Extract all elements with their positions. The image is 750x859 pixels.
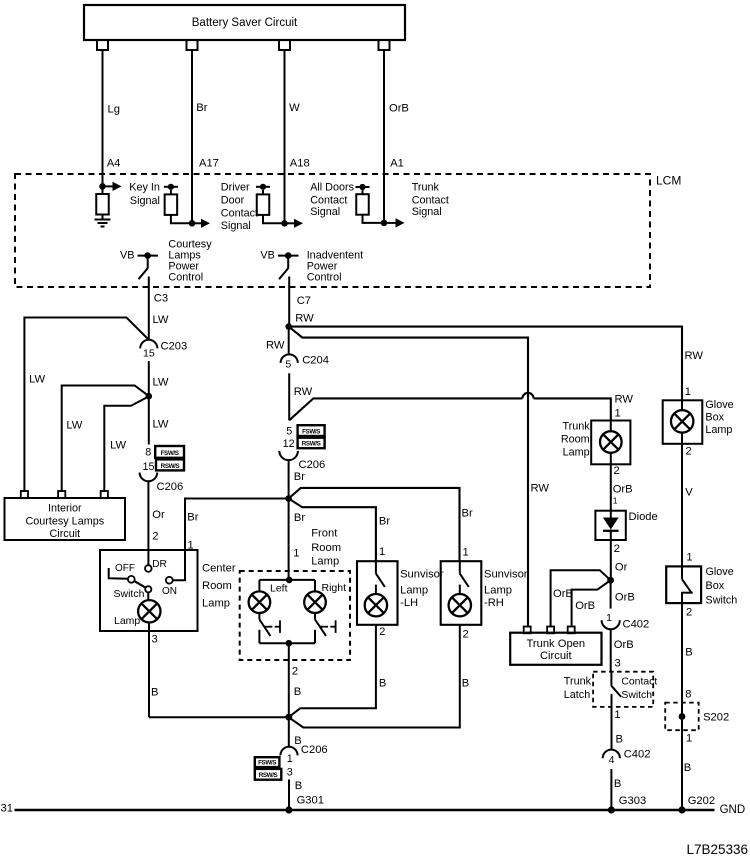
svg-text:W: W <box>289 102 300 114</box>
svg-text:1: 1 <box>287 753 293 765</box>
left lamp <box>258 580 260 592</box>
svg-text:Courtesy Lamps: Courtesy Lamps <box>25 515 104 527</box>
battery box pin 1 <box>97 40 108 50</box>
svg-text:Center: Center <box>202 563 236 575</box>
wire OrB pin3 to contact switch <box>610 629 612 672</box>
svg-text:Left: Left <box>270 582 288 594</box>
svg-text:C203: C203 <box>161 340 188 352</box>
svg-text:Lamp: Lamp <box>484 585 512 597</box>
svg-text:B: B <box>294 686 301 698</box>
svg-text:RW: RW <box>531 483 550 495</box>
wire RW to glove box lamp <box>289 327 682 401</box>
svg-text:Interior: Interior <box>48 503 82 515</box>
contact switch blade <box>610 672 612 686</box>
svg-text:VB: VB <box>120 249 134 261</box>
wire B to C206 <box>288 717 290 747</box>
svg-text:C7: C7 <box>297 295 311 307</box>
svg-text:C402: C402 <box>623 618 650 630</box>
svg-text:DR: DR <box>152 559 166 570</box>
svg-text:LW: LW <box>153 314 169 326</box>
wire 2 B sunvisor RH to ground junction <box>289 625 460 728</box>
wire LW to C206 <box>148 396 150 444</box>
wire 1 B to C402 bottom <box>611 694 613 750</box>
wire RW to trunk room lamp with hop <box>289 398 522 420</box>
terminal OFF <box>109 568 128 579</box>
svg-text:Lamp: Lamp <box>114 615 140 627</box>
wire RW C7 junction to C204 <box>288 327 290 355</box>
node G303 <box>608 806 615 813</box>
resistor below A4 <box>102 186 104 194</box>
terminal ON <box>166 577 173 584</box>
svg-text:Latch: Latch <box>564 689 590 701</box>
connector C206 bottom <box>280 747 297 756</box>
svg-text:Signal: Signal <box>221 220 251 232</box>
svg-text:ON: ON <box>162 586 177 597</box>
svg-text:Front: Front <box>311 528 338 540</box>
svg-text:Trunk: Trunk <box>564 675 592 687</box>
svg-text:2: 2 <box>686 607 692 619</box>
svg-text:Circuit: Circuit <box>50 528 81 540</box>
svg-text:GND: GND <box>720 804 746 816</box>
interior courtesy lamps circuit box <box>5 498 126 540</box>
svg-text:LW: LW <box>153 377 169 389</box>
sunvisor lamp LH bulb <box>365 594 387 616</box>
svg-text:Trunk Open: Trunk Open <box>526 638 585 650</box>
wire C3 LW <box>148 277 150 341</box>
trunk room lamp bulb <box>600 431 622 453</box>
node A1 / trunk contact signal arrow <box>381 220 388 227</box>
ground <box>102 215 104 220</box>
wire Br to front room lamp <box>288 460 290 580</box>
sunvisor lamp RH bulb <box>449 594 471 616</box>
node Or junction <box>607 577 614 584</box>
trunk open circuit pin 2 <box>547 627 554 634</box>
svg-text:1: 1 <box>614 709 620 721</box>
svg-text:Diode: Diode <box>629 511 658 523</box>
trunk open circuit pin 3 <box>568 627 575 634</box>
svg-text:OrB: OrB <box>389 103 409 115</box>
svg-text:Room: Room <box>561 434 590 446</box>
svg-text:B: B <box>685 646 692 658</box>
front room lamp box <box>240 571 350 660</box>
svg-text:Door: Door <box>221 194 245 206</box>
svg-text:B: B <box>151 687 158 699</box>
svg-text:Control: Control <box>168 272 203 284</box>
right door switch <box>314 613 316 619</box>
wire 2 B front room lamp to ground junction <box>288 643 290 717</box>
svg-text:B: B <box>295 780 302 792</box>
svg-text:Lg: Lg <box>108 104 120 116</box>
svg-text:2: 2 <box>614 543 620 555</box>
svg-text:3: 3 <box>287 766 293 778</box>
right lamp <box>314 580 316 592</box>
wire Or pin2 to center room lamp <box>147 481 149 565</box>
svg-text:C206: C206 <box>299 459 326 471</box>
connector C204 <box>281 354 298 363</box>
svg-text:A18: A18 <box>290 158 310 170</box>
svg-text:FSW/S: FSW/S <box>161 450 179 457</box>
svg-text:1: 1 <box>615 408 621 420</box>
node Br branch junction <box>285 495 292 502</box>
svg-text:1: 1 <box>606 612 612 624</box>
svg-text:Box: Box <box>705 411 724 423</box>
svg-text:8: 8 <box>145 447 151 459</box>
node A4 / key in signal arrow <box>99 183 106 190</box>
svg-text:Room: Room <box>202 580 232 592</box>
node A17 / driver door contact signal arrow <box>189 220 196 227</box>
svg-text:3: 3 <box>152 634 158 646</box>
wire RW below C204 <box>288 373 290 420</box>
wire Br to sunvisor LH <box>289 499 376 562</box>
svg-text:FSW/S: FSW/S <box>302 428 320 435</box>
svg-text:Lamp: Lamp <box>563 447 590 459</box>
svg-text:RSW/S: RSW/S <box>302 441 321 448</box>
svg-text:RSW/S: RSW/S <box>259 772 278 779</box>
interior box pin 3 <box>101 491 108 498</box>
svg-text:B: B <box>684 762 691 774</box>
resistor driver door <box>164 186 178 188</box>
battery box pin 4 <box>379 40 390 50</box>
svg-text:1: 1 <box>463 547 469 559</box>
svg-text:Contact: Contact <box>621 676 657 687</box>
trunk latch contact switch box <box>593 672 653 707</box>
trunk open circuit box <box>510 633 601 665</box>
wire Lg A4 <box>102 50 104 186</box>
node C7 junction <box>285 323 292 330</box>
svg-text:Trunk: Trunk <box>562 420 590 432</box>
svg-text:Signal: Signal <box>130 195 160 207</box>
svg-text:L7B25336: L7B25336 <box>686 842 748 857</box>
wire OrB to C402 <box>610 580 612 608</box>
glove box lamp box <box>663 400 703 444</box>
svg-text:Lamp: Lamp <box>202 598 230 610</box>
svg-text:1: 1 <box>188 540 194 552</box>
svg-text:Box: Box <box>706 580 725 592</box>
svg-text:B: B <box>616 733 623 745</box>
svg-text:-RH: -RH <box>484 597 504 609</box>
wire 2 B 8 to S202 <box>681 603 683 810</box>
svg-text:C204: C204 <box>302 355 329 367</box>
svg-text:B: B <box>462 678 469 690</box>
svg-text:Trunk: Trunk <box>412 181 440 193</box>
svg-text:2: 2 <box>292 666 298 678</box>
svg-text:OrB: OrB <box>553 588 573 600</box>
wire LW from interior box pin3 <box>104 397 148 493</box>
svg-text:RW: RW <box>685 350 704 362</box>
connector C402 bottom <box>603 750 620 759</box>
battery box pin 2 <box>187 40 198 50</box>
svg-text:1: 1 <box>686 732 692 744</box>
svg-text:1: 1 <box>686 552 692 564</box>
diode D <box>595 511 625 540</box>
wire Br A17 <box>191 50 193 223</box>
resistor trunk contact <box>356 186 370 188</box>
connector C203 <box>140 340 157 349</box>
splice S202 <box>665 703 699 731</box>
svg-text:Glove: Glove <box>705 399 733 411</box>
svg-text:1: 1 <box>293 548 299 560</box>
svg-text:Driver: Driver <box>221 181 250 193</box>
svg-text:Contact: Contact <box>310 195 347 207</box>
wire 2 B sunvisor LH to ground junction <box>289 625 376 717</box>
svg-text:1: 1 <box>685 386 691 398</box>
svg-text:OrB: OrB <box>615 592 635 604</box>
wire 2 OrB to diode <box>610 464 612 510</box>
wire RW to trunk open circuit <box>289 327 528 628</box>
svg-text:RW: RW <box>615 394 634 406</box>
svg-text:Sunvisor: Sunvisor <box>484 569 528 581</box>
svg-text:Signal: Signal <box>310 206 340 218</box>
svg-text:8: 8 <box>685 688 691 700</box>
wire 3 B to ground junction <box>148 623 150 718</box>
wire LW from interior box pin1 <box>24 318 148 493</box>
switch arm <box>134 581 145 588</box>
svg-text:LW: LW <box>66 420 82 432</box>
svg-text:Or: Or <box>615 561 628 573</box>
battery saver circuit box <box>84 5 405 40</box>
svg-text:Br: Br <box>196 102 207 114</box>
svg-text:G301: G301 <box>297 795 324 807</box>
svg-text:Switch: Switch <box>114 588 145 600</box>
svg-text:Switch: Switch <box>706 594 738 606</box>
svg-text:G202: G202 <box>688 795 715 807</box>
svg-text:C206: C206 <box>301 744 328 756</box>
svg-text:C3: C3 <box>154 293 168 305</box>
svg-text:Br: Br <box>294 471 305 483</box>
svg-text:Br: Br <box>379 515 390 527</box>
svg-text:C402: C402 <box>624 748 651 760</box>
center room lamp bulb <box>138 600 160 622</box>
svg-text:1: 1 <box>613 496 618 506</box>
node G301 <box>285 806 292 813</box>
wire C7 RW <box>288 277 290 327</box>
svg-text:RW: RW <box>294 386 313 398</box>
svg-text:3: 3 <box>615 658 621 670</box>
svg-text:Glove: Glove <box>706 566 734 578</box>
svg-text:Br: Br <box>294 512 305 524</box>
svg-text:Contact: Contact <box>221 207 258 219</box>
svg-text:OrB: OrB <box>613 483 633 495</box>
svg-text:LW: LW <box>29 373 45 385</box>
svg-text:V: V <box>685 486 693 498</box>
svg-text:2: 2 <box>379 626 385 638</box>
svg-text:RW: RW <box>266 340 285 352</box>
svg-text:OrB: OrB <box>614 639 634 651</box>
svg-text:Room: Room <box>311 542 341 554</box>
svg-text:LW: LW <box>110 439 126 451</box>
wire 2 V 1 to glove box switch <box>681 444 683 567</box>
svg-text:Or: Or <box>152 509 165 521</box>
svg-text:RW: RW <box>295 313 314 325</box>
svg-text:C206: C206 <box>157 481 184 493</box>
switch pivot <box>145 586 151 592</box>
svg-text:Right: Right <box>322 582 347 594</box>
svg-text:2: 2 <box>686 446 692 458</box>
svg-text:1: 1 <box>379 546 385 558</box>
svg-text:VB: VB <box>260 249 274 261</box>
svg-text:Battery Saver Circuit: Battery Saver Circuit <box>192 17 298 29</box>
svg-text:Lamp: Lamp <box>400 585 428 597</box>
svg-text:2: 2 <box>463 629 469 641</box>
glove box lamp bulb <box>671 410 693 432</box>
svg-text:Signal: Signal <box>412 206 442 218</box>
front room lamp top node <box>286 577 293 584</box>
sunvisor lamp LH box <box>357 561 398 625</box>
svg-text:-LH: -LH <box>400 597 418 609</box>
node A18 / all doors contact signal arrow <box>281 220 288 227</box>
svg-text:RSW/S: RSW/S <box>161 463 180 470</box>
svg-text:15: 15 <box>142 461 154 473</box>
interior box pin 1 <box>21 491 28 498</box>
svg-text:LW: LW <box>153 419 169 431</box>
svg-text:LCM: LCM <box>656 174 681 188</box>
svg-text:12: 12 <box>283 438 295 450</box>
svg-text:15: 15 <box>143 348 155 360</box>
LCM module box <box>15 174 650 287</box>
svg-text:G303: G303 <box>619 795 646 807</box>
svg-text:5: 5 <box>286 426 292 438</box>
trunk open circuit pin 1 <box>524 627 531 634</box>
junction node LW <box>146 393 153 400</box>
wire OrB to trunk open circuit pin mid <box>551 570 611 627</box>
svg-text:S202: S202 <box>703 712 729 724</box>
svg-text:Br: Br <box>462 508 473 520</box>
ground junction node B <box>285 714 292 721</box>
wire Br to sunvisor RH <box>289 488 460 561</box>
svg-text:B: B <box>379 678 386 690</box>
node G202 <box>678 806 685 813</box>
svg-text:2: 2 <box>152 531 158 543</box>
sunvisor lamp RH box <box>441 561 482 625</box>
svg-text:FSW/S: FSW/S <box>258 760 276 767</box>
svg-text:31: 31 <box>1 803 13 815</box>
wire OrB A1 <box>383 50 385 223</box>
battery box pin 3 <box>279 40 290 50</box>
svg-text:Sunvisor: Sunvisor <box>400 569 444 581</box>
center room lamp box <box>100 550 198 631</box>
wire OrB to trunk open circuit pin right <box>572 580 611 627</box>
svg-text:Contact: Contact <box>412 194 449 206</box>
svg-text:Lamp: Lamp <box>311 556 339 568</box>
svg-text:4: 4 <box>609 754 615 766</box>
svg-text:All Doors: All Doors <box>310 182 354 194</box>
svg-text:Switch: Switch <box>621 690 652 701</box>
svg-text:A4: A4 <box>107 158 121 170</box>
svg-text:2: 2 <box>614 465 620 477</box>
svg-text:OrB: OrB <box>575 600 595 612</box>
svg-text:Control: Control <box>307 272 342 284</box>
wire LW from interior box pin2 <box>62 386 149 493</box>
svg-text:OFF: OFF <box>115 563 135 574</box>
svg-text:B: B <box>614 778 621 790</box>
interior box pin 2 <box>58 491 65 498</box>
resistor all doors <box>256 186 270 188</box>
left door switch <box>258 613 260 619</box>
wire W A18 <box>284 50 286 223</box>
wire B to G301 <box>288 780 290 811</box>
wire LW below C203 <box>148 361 150 396</box>
glove box switch <box>666 566 701 603</box>
wire B to G303 <box>610 769 612 810</box>
wire Br pin1 from junction to ON <box>173 499 289 581</box>
svg-text:A1: A1 <box>390 158 404 170</box>
svg-text:Br: Br <box>187 512 198 524</box>
svg-text:Key In: Key In <box>129 182 160 194</box>
svg-text:A17: A17 <box>199 158 219 170</box>
front room lamp bottom node <box>259 642 315 644</box>
svg-text:5: 5 <box>285 359 291 371</box>
svg-text:Lamp: Lamp <box>705 424 732 436</box>
svg-text:Circuit: Circuit <box>540 650 573 662</box>
terminal DR <box>145 565 152 572</box>
